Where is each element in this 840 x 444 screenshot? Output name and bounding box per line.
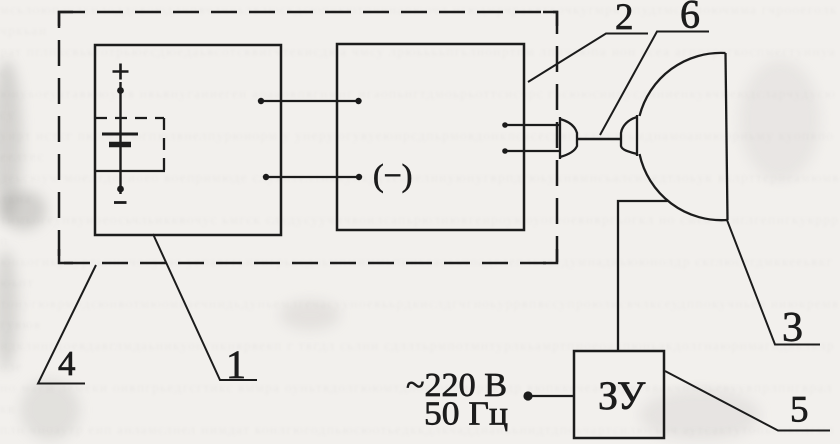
connector 6 right half bbox=[621, 115, 637, 156]
svg-text:5: 5 bbox=[790, 390, 809, 431]
reflector 3 mouth line bbox=[726, 53, 728, 220]
reflector 3 lower arc bbox=[640, 154, 728, 220]
svg-text:6: 6 bbox=[680, 0, 700, 37]
wire lower to connector bbox=[505, 150, 560, 152]
callout 2 leader bbox=[528, 34, 648, 83]
callout 5 leader bbox=[665, 371, 830, 431]
junction dot bbox=[502, 122, 508, 128]
callout 3 leader bbox=[727, 220, 820, 345]
dashed enclosure (lantern housing, item 2/4) bbox=[59, 12, 557, 263]
scan smudges background bbox=[0, 60, 22, 220]
wire upper to connector bbox=[505, 124, 560, 126]
block (converter) bbox=[337, 44, 524, 230]
svg-text:4: 4 bbox=[58, 344, 76, 383]
battery long plate bbox=[102, 133, 138, 136]
battery compartment dashed box top bbox=[95, 117, 164, 119]
junction dot bbox=[356, 174, 362, 180]
charger box ZU bbox=[574, 351, 664, 438]
enclosure corner bottom-right bbox=[543, 249, 557, 263]
wire lower between blocks bbox=[266, 176, 359, 178]
wire AC to charger bbox=[531, 395, 574, 397]
battery wire bbox=[119, 82, 121, 194]
junction dot bbox=[258, 98, 264, 104]
battery minus sign bbox=[114, 201, 127, 204]
connector cable bbox=[577, 138, 621, 141]
callout 1 leader bbox=[153, 234, 257, 380]
wire reflector to charger bbox=[618, 201, 668, 352]
block 1 (battery unit) bbox=[95, 45, 281, 235]
battery compartment box bottom (solid) bbox=[95, 170, 165, 172]
junction dot bbox=[502, 148, 508, 154]
battery top terminal dot bbox=[117, 87, 124, 94]
svg-text:3: 3 bbox=[782, 305, 803, 351]
connector 6 left half bbox=[560, 117, 577, 159]
svg-text:(−): (−) bbox=[373, 157, 412, 193]
callout 6 leader bbox=[600, 32, 709, 136]
svg-text:50 Гц: 50 Гц bbox=[424, 396, 508, 433]
battery GB plus sign bbox=[113, 64, 129, 80]
junction dot bbox=[263, 174, 269, 180]
battery compartment dashed box right bbox=[163, 118, 165, 171]
enclosure corner top-right bbox=[543, 12, 557, 26]
callout 4 leader bbox=[38, 265, 96, 384]
battery short thick plate bbox=[109, 142, 131, 148]
AC supply dot bbox=[523, 391, 532, 400]
svg-text:ЗУ: ЗУ bbox=[598, 373, 646, 418]
enclosure corner bottom-left bbox=[59, 249, 73, 263]
svg-text:1: 1 bbox=[226, 342, 246, 387]
reflector 3 upper arc bbox=[640, 53, 726, 116]
wire upper between blocks bbox=[261, 100, 359, 102]
battery bottom terminal dot bbox=[117, 186, 124, 193]
junction dot bbox=[355, 98, 361, 104]
svg-text:2: 2 bbox=[615, 0, 634, 38]
enclosure corner top-left bbox=[59, 12, 73, 26]
